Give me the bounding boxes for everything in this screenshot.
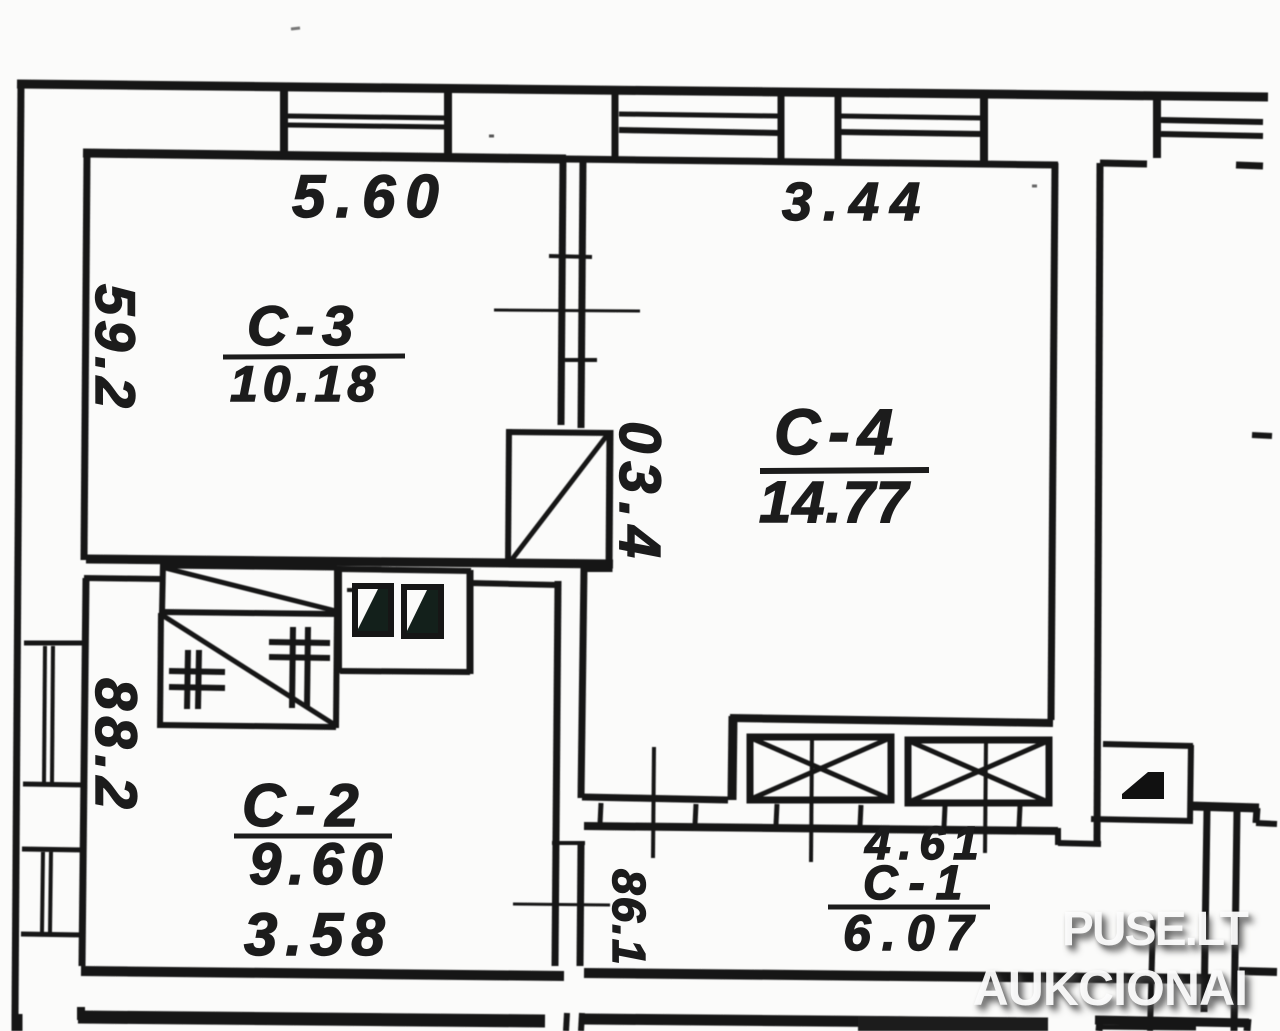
window divider D3	[612, 90, 619, 159]
stove box top edge	[506, 432, 611, 433]
T-wall stem left line	[1204, 810, 1207, 1012]
closet tick c	[776, 804, 777, 825]
wire partition wall C3/C4 left line	[561, 157, 563, 425]
svg-text:10.18: 10.18	[230, 356, 380, 412]
watermark PUSE.LT	[1062, 902, 1247, 957]
bed upper box bottom edge	[162, 612, 337, 614]
dimension witness vertical b	[811, 739, 812, 862]
wire outer wall bottom-left stub	[12, 1014, 23, 1031]
svg-text:C-3: C-3	[247, 294, 361, 357]
window L2 bottom edge	[21, 934, 84, 935]
kitchen counter box bottom edge	[340, 671, 470, 672]
hash mark 2 verticals	[292, 627, 293, 708]
bottom right vertical b	[1150, 920, 1153, 1031]
dimension witness vertical c	[985, 740, 986, 853]
window divider D2	[444, 89, 452, 158]
bed lower box diagonal	[162, 615, 335, 725]
svg-text:86.1: 86.1	[603, 869, 655, 967]
speck pier	[489, 135, 494, 138]
chimney box right edge	[1190, 745, 1191, 821]
bed lower box bottom edge	[160, 725, 336, 727]
window L2 glazing lines	[42, 852, 43, 932]
window L1 bottom edge	[23, 784, 86, 785]
kitchen counter box left edge	[336, 568, 342, 673]
window L2 top edge	[22, 849, 85, 850]
wire partition wall C2/C1 left line	[555, 581, 558, 966]
wire partition wall C2/C1 right line lower	[580, 845, 581, 966]
window divider D1	[280, 88, 288, 157]
bottom band left end upturn	[77, 1007, 85, 1020]
stove box between C-3 and C-4 left edge	[508, 429, 509, 566]
svg-text:5.60: 5.60	[292, 163, 449, 230]
bed upper box diagonal	[165, 568, 336, 611]
closet tick f	[1019, 806, 1020, 827]
wire C-1 wall jog horizontal	[1058, 843, 1101, 844]
wire partition wall C4/right-room left line	[1051, 163, 1055, 720]
wardrobe X-box 2 frame	[908, 740, 1049, 803]
bed upper box left edge	[162, 564, 163, 613]
hash mark 1 verticals	[187, 650, 188, 709]
stove burner square 2	[404, 587, 441, 636]
right edge dimension tick	[1252, 435, 1272, 436]
bottom band left segment	[78, 1017, 545, 1021]
wire bottom wall of room C-1	[584, 973, 1211, 979]
T-wall right horizontal	[1256, 823, 1277, 824]
wardrobe X-box 2 diagonals	[909, 741, 1048, 802]
fraction line under C-4	[760, 470, 929, 471]
bottom band right corner vertical	[1247, 1019, 1248, 1031]
svg-text:9.60: 9.60	[249, 832, 390, 897]
stove burner tick	[347, 588, 355, 592]
wardrobe X-box 1 diagonals	[751, 738, 890, 799]
dimension tick on C3/C4 wall lower	[565, 358, 597, 362]
dimension witness line for 1.68	[513, 904, 610, 905]
bottom right low line	[1098, 1027, 1196, 1028]
wire top wall of room C-3	[83, 153, 566, 159]
kitchen counter box right edge	[467, 570, 474, 674]
bottom door jamb left	[566, 1013, 567, 1031]
dimension witness vertical a	[653, 747, 654, 858]
wire outer left wall line	[15, 81, 21, 1018]
chimney box bottom edge	[1091, 819, 1193, 821]
wire bottom wall right of stem	[1239, 971, 1277, 972]
stove box to wall connector	[583, 566, 611, 572]
stove box diagonal	[510, 434, 608, 562]
chimney box top edge	[1103, 744, 1193, 746]
stove burner square 1	[355, 586, 391, 634]
svg-text:14.77: 14.77	[759, 470, 911, 535]
wardrobe X-box 1 frame	[750, 737, 891, 800]
wire top wall of room C-4	[566, 159, 1058, 165]
stove box right edge	[609, 430, 610, 572]
fraction line under C-2	[234, 834, 392, 839]
bottom band right segment	[1095, 1020, 1249, 1023]
dimension tick on C3/C4 wall upper	[549, 256, 592, 257]
dimension tick on C2/C1 wall	[552, 841, 585, 845]
T-wall bar	[1191, 806, 1259, 808]
closet alcove left wall	[732, 716, 733, 800]
svg-text:6.07: 6.07	[843, 905, 984, 961]
closet tick a	[600, 803, 601, 824]
wire top wall right end segment	[1236, 165, 1263, 166]
svg-text:59.2: 59.2	[84, 284, 147, 413]
svg-text:88.2: 88.2	[83, 678, 148, 815]
bed upper box top edge	[163, 566, 337, 568]
dimension witness line for 4.30	[494, 310, 640, 311]
closet tick e	[944, 806, 945, 827]
window L1 top edge	[24, 641, 87, 646]
window W-D glazing lines	[1161, 120, 1263, 122]
svg-text:3.44: 3.44	[782, 172, 931, 232]
wire kitchen wall segment right of stove counter	[470, 583, 558, 585]
window divider D4	[778, 92, 785, 161]
wire left wall of room C-3	[84, 153, 87, 560]
bottom right vertical a	[1099, 1020, 1100, 1031]
wire top wall of right neighbour room	[1100, 163, 1147, 164]
bed lower box right edge	[336, 613, 337, 728]
speck top	[291, 28, 300, 29]
wire partition wall C2/C1 right line upper	[581, 567, 584, 798]
window pier divider D7	[1153, 96, 1161, 158]
svg-text:3.58: 3.58	[244, 901, 393, 968]
wire outer top wall line	[17, 84, 1268, 97]
window L1 glazing lines	[44, 646, 45, 783]
bottom door jamb right	[581, 1013, 582, 1031]
chimney black square	[1122, 772, 1164, 799]
hash mark 1 horizontals	[169, 671, 225, 672]
fraction line under C-3	[223, 356, 405, 357]
closet tick d	[860, 805, 861, 826]
wire top wall of room C-2 left part	[84, 578, 161, 579]
svg-text:03.4: 03.4	[607, 421, 672, 566]
wire left wall of room C-2	[82, 578, 86, 966]
T-wall right drop	[1256, 808, 1257, 823]
window W-C glazing lines	[841, 116, 981, 118]
speck band	[1032, 185, 1037, 188]
wire top wall of room C-1	[584, 826, 1058, 831]
hash mark 2 horizontals	[269, 642, 330, 643]
bed lower box left edge	[160, 613, 161, 728]
T-wall stem right line	[1234, 810, 1237, 1031]
svg-text:C-4: C-4	[774, 396, 901, 468]
svg-text:C-1: C-1	[863, 857, 973, 910]
closet alcove top wall	[730, 718, 1053, 723]
window divider D5	[835, 92, 842, 161]
window W-A glazing lines	[288, 116, 446, 118]
wire bottom wall of C-4 left part	[582, 797, 728, 800]
wire partition wall C3/C4 right line	[581, 158, 583, 428]
wire bottom wall of room C-2	[81, 971, 564, 976]
svg-text:C-2: C-2	[242, 772, 369, 839]
wire C-1 wall jog vertical	[1055, 828, 1061, 845]
kitchen counter box top edge	[339, 569, 471, 571]
wire bottom wall of room C-3	[86, 559, 613, 564]
bottom band middle segment	[584, 1019, 1048, 1023]
wire partition wall C4/right-room right line	[1097, 163, 1100, 846]
fraction line under C-1	[828, 905, 990, 910]
closet tick b	[695, 804, 696, 825]
window divider D6	[980, 94, 988, 163]
window W-B glazing lines	[619, 114, 778, 116]
watermark AUKCIONAI	[973, 959, 1247, 1017]
bed upper box right edge	[334, 566, 340, 613]
bottom wall thick block	[858, 1016, 1048, 1031]
